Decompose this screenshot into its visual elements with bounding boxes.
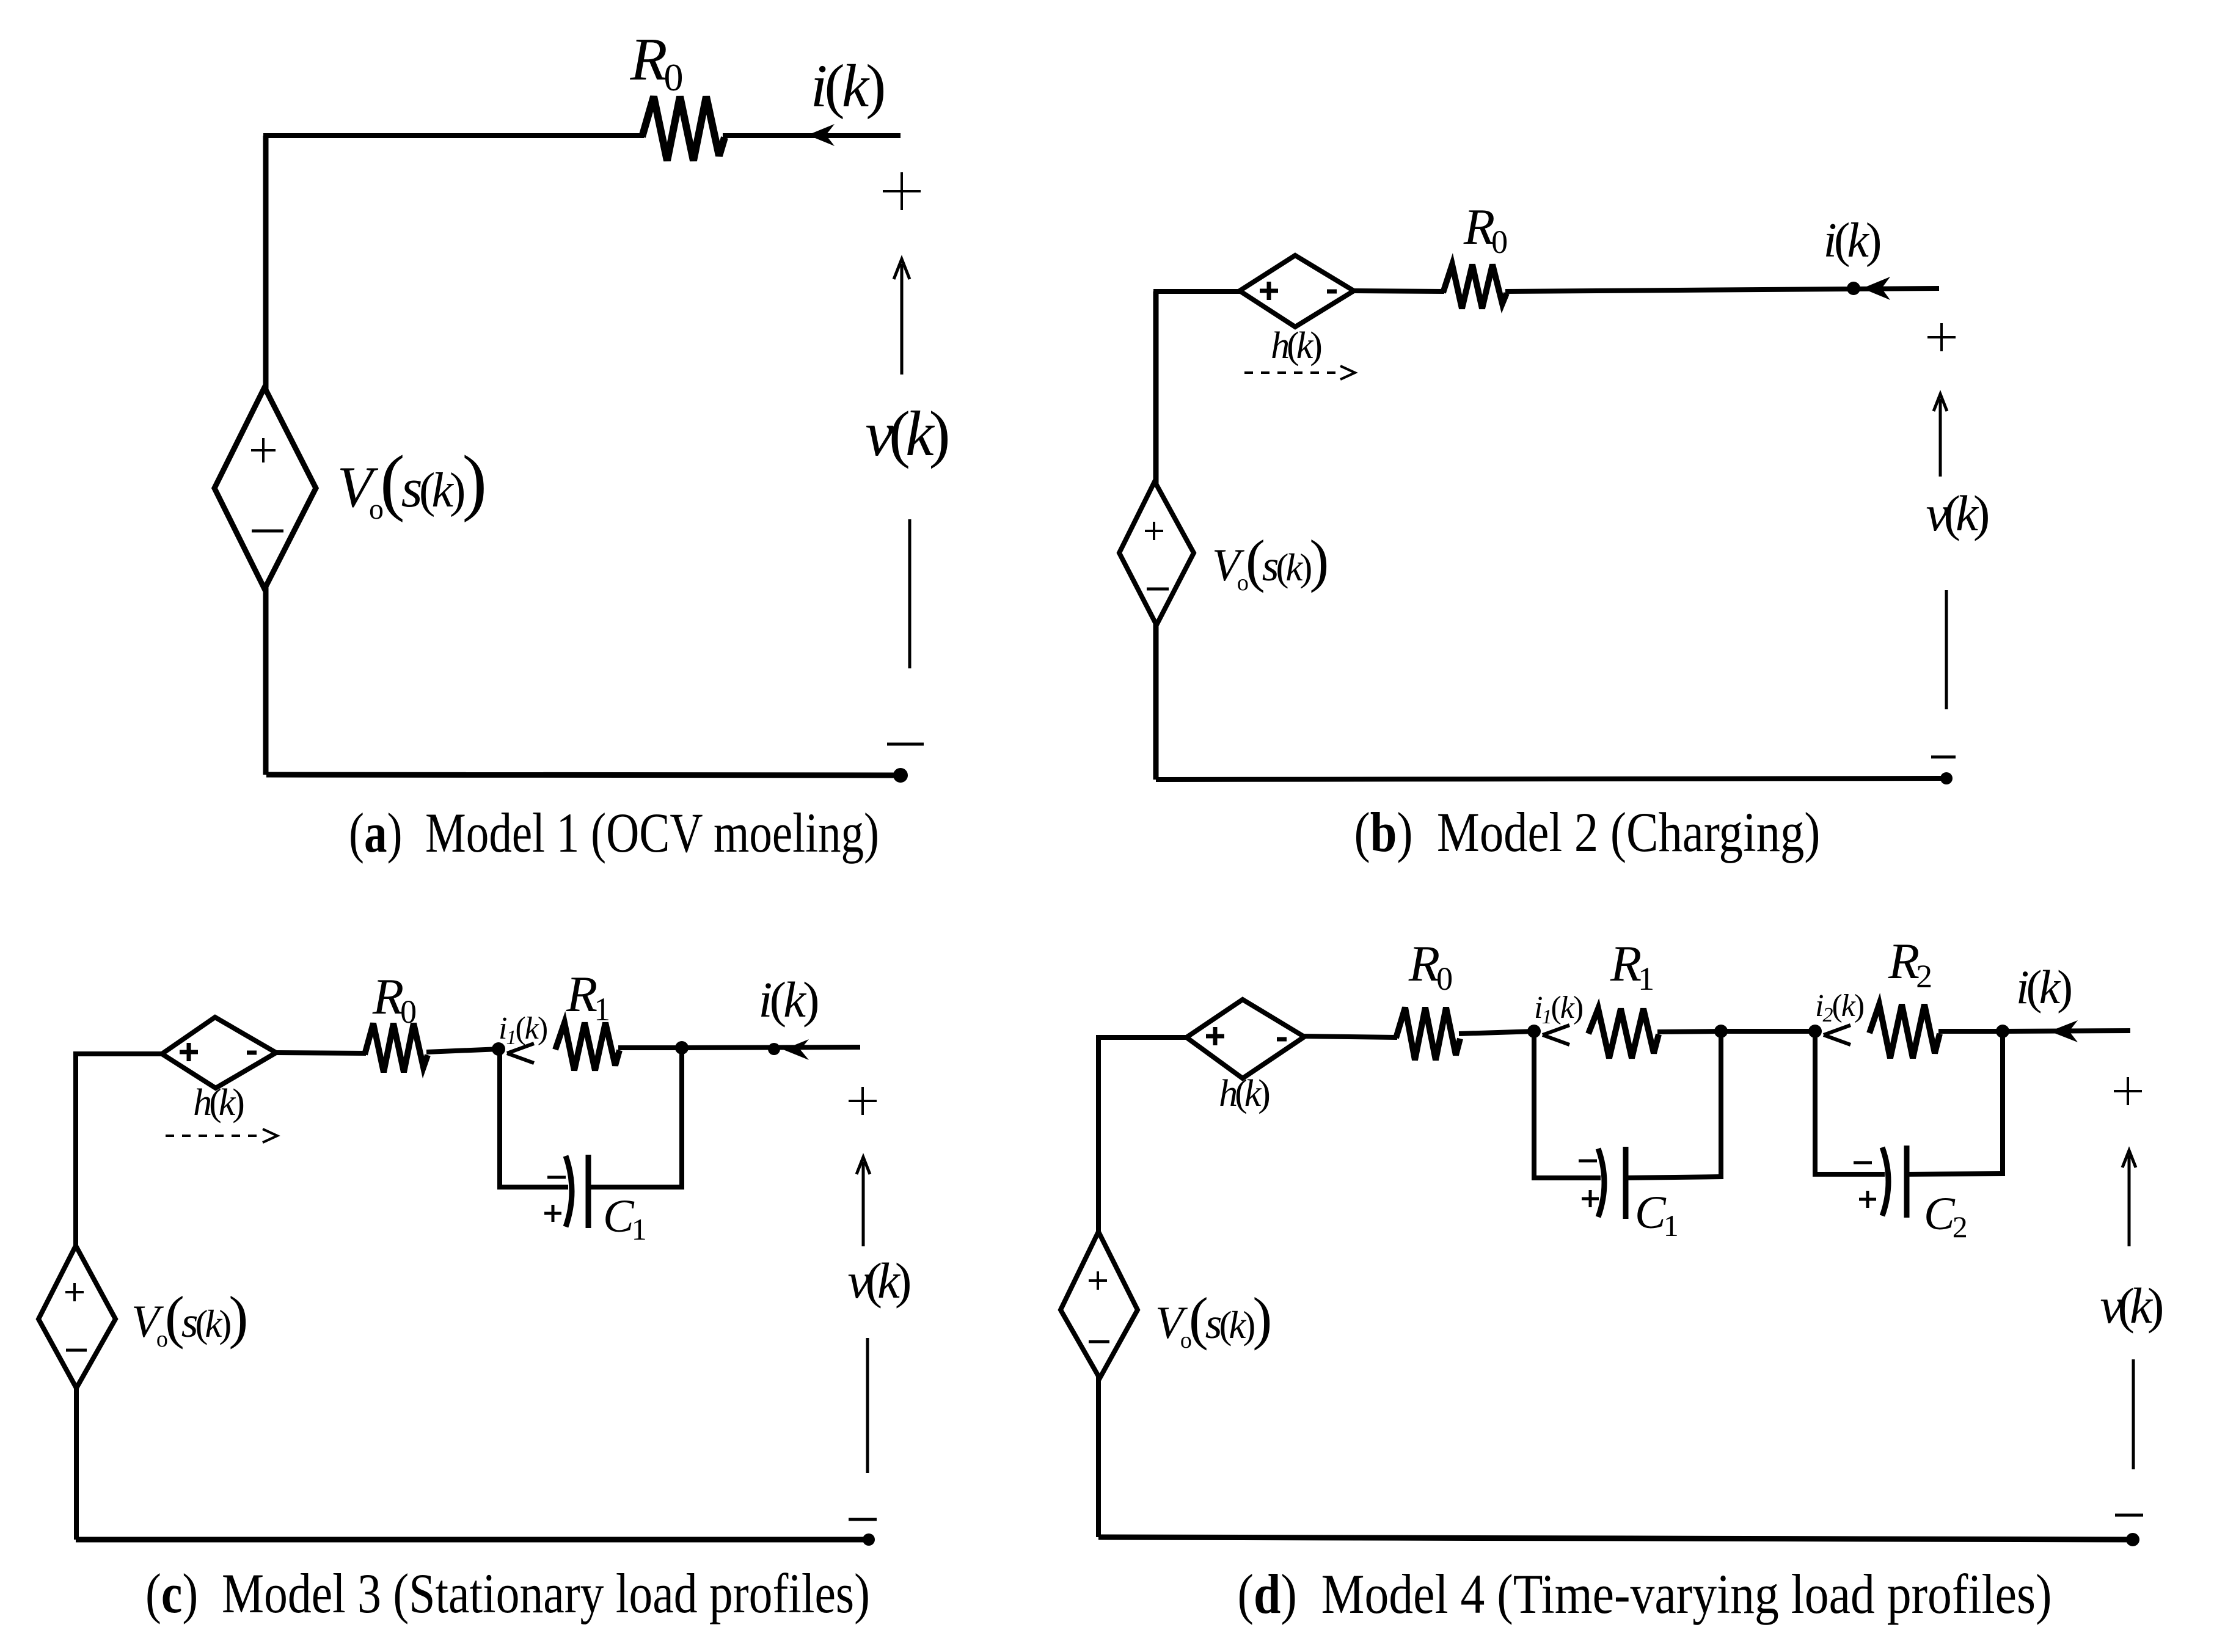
label v(k) (b) xyxy=(1926,485,1988,541)
node dot right of R2C2 (d) xyxy=(1996,1025,2009,1038)
label R0 (c) xyxy=(372,968,415,1030)
minus sign inside source (b) xyxy=(1147,588,1169,591)
capacitor branch C1 right vertical (d) xyxy=(1719,1031,1723,1179)
node dot at terminal (c) xyxy=(768,1043,780,1055)
plus sign capacitor C1 (d) xyxy=(1582,1190,1599,1207)
current arrow i(k) (c) xyxy=(783,1039,809,1060)
svg-text:(a) Model 1 (OCV moeling): (a) Model 1 (OCV moeling) xyxy=(349,802,879,864)
voltage source V_o diamond (c) xyxy=(38,1246,115,1388)
label R0 (d) xyxy=(1408,935,1452,997)
label i1(k) (c) xyxy=(499,1011,547,1049)
node dot right of R1C1 (d) xyxy=(1714,1025,1728,1038)
svg-text:h(k): h(k) xyxy=(193,1082,243,1124)
caption (d) xyxy=(1238,1563,2052,1625)
label C1 (d) xyxy=(1635,1187,1677,1243)
wire: circuit (d) top horizontal (node2 to node3) xyxy=(1721,1029,1816,1034)
label R1 (d) xyxy=(1610,935,1653,997)
node dot left of R2C2 (d) xyxy=(1808,1025,1822,1038)
label V_o(s(k)) (a) xyxy=(337,440,484,525)
resistor R2 (d) xyxy=(1869,1004,1940,1058)
label i(k) (a) xyxy=(811,52,884,120)
voltage source V_o diamond (b) xyxy=(1119,481,1194,625)
line v(k) lower segment (d) xyxy=(2132,1359,2135,1469)
capacitor branch C2 left vertical (d) xyxy=(1813,1031,1818,1177)
plus sign inside h source (d) xyxy=(1206,1027,1224,1045)
wire: circuit (a) bottom horizontal xyxy=(266,775,901,775)
label R0 (a) xyxy=(629,25,682,99)
wire: circuit (a) top horizontal (left of R0) xyxy=(263,133,644,138)
minus sign v(k) (b) xyxy=(1931,756,1956,759)
wire: circuit (a) left vertical (bottom section) xyxy=(263,587,269,775)
resistor R0 (d) xyxy=(1396,1007,1460,1060)
node dot left of RC pair (c) xyxy=(492,1042,505,1056)
wire: circuit (c) top horizontal (h source to R0) xyxy=(275,1053,366,1053)
label C1 (c) xyxy=(603,1191,645,1246)
arrow up v(k) (b) xyxy=(1934,394,1947,477)
node dot on top wire (b) xyxy=(1847,282,1860,295)
wire: circuit (b) top horizontal (right of R0) xyxy=(1505,288,1939,291)
wire: circuit (d) top horizontal (R0 to node1) xyxy=(1459,1031,1535,1034)
capacitor branch C2 bottom wire left (d) xyxy=(1813,1172,1885,1177)
arrow up v(k) (d) xyxy=(2122,1150,2136,1246)
svg-text:i(k): i(k) xyxy=(2016,960,2071,1014)
plus sign v(k) (d) xyxy=(2114,1077,2142,1105)
resistor R0 (b) xyxy=(1443,265,1507,309)
resistor R1 (c) xyxy=(555,1023,619,1070)
current arrow i2(k) (d) xyxy=(1824,1025,1850,1045)
minus sign inside source (c) xyxy=(66,1349,87,1352)
svg-text:(c) Model 3 (Stationary load: (c) Model 3 (Stationary load profiles) xyxy=(145,1562,870,1625)
resistor R0 (a) xyxy=(642,97,725,161)
plus sign v(k) (c) xyxy=(849,1087,877,1115)
wire: circuit (b) top horizontal (h source to R0) xyxy=(1353,291,1444,291)
node dot bottom right (b) xyxy=(1940,772,1953,784)
label i(k) (b) xyxy=(1823,214,1880,268)
plus sign inside source (b) xyxy=(1145,522,1163,540)
wire: circuit (d) top horizontal (left of h source) xyxy=(1096,1035,1188,1040)
line v(k) lower segment (b) xyxy=(1945,590,1948,709)
label V_o(s(k)) (c) xyxy=(131,1284,246,1352)
svg-text:(b) Model 2 (Charging): (b) Model 2 (Charging) xyxy=(1354,801,1821,863)
svg-text:h(k): h(k) xyxy=(1271,325,1321,367)
minus sign inside h source (d) xyxy=(1277,1037,1287,1042)
wire: circuit (c) top horizontal (R0 to node) xyxy=(426,1049,500,1052)
hysteresis source h(k) diamond (b) xyxy=(1240,255,1354,327)
current arrow i(k) (b) xyxy=(1862,277,1890,300)
capacitor C2 plates (d) xyxy=(1882,1146,1907,1218)
node dot right of RC pair (c) xyxy=(675,1041,689,1054)
resistor R1 (d) xyxy=(1588,1009,1659,1058)
dashed arrow h(k) (c) xyxy=(166,1129,277,1142)
line v(k) lower segment (c) xyxy=(866,1338,869,1473)
svg-text:(d) Model 4 (Time-varying loa: (d) Model 4 (Time-varying load profiles) xyxy=(1238,1563,2052,1625)
minus sign inside source (a) xyxy=(252,530,283,533)
current arrow i1(k) (d) xyxy=(1543,1025,1569,1045)
wire: circuit (d) top horizontal (h source to R0) xyxy=(1303,1036,1397,1037)
label h(k) (b) xyxy=(1271,325,1321,367)
caption (c) xyxy=(145,1562,870,1625)
svg-text:i(k): i(k) xyxy=(811,52,884,120)
plus sign capacitor C1 (c) xyxy=(544,1205,561,1222)
wire: circuit (c) top horizontal (R1 to node) xyxy=(618,1045,683,1050)
wire: circuit (b) bottom horizontal xyxy=(1156,778,1946,780)
capacitor branch C1 bottom wire left (d) xyxy=(1532,1175,1601,1180)
label h(k) (c) xyxy=(193,1082,243,1124)
arrow up v(k) (c) xyxy=(857,1157,870,1246)
resistor R0 (c) xyxy=(365,1023,428,1072)
wire: circuit (d) left vertical (top section) xyxy=(1096,1037,1101,1234)
capacitor C1 plates (c) xyxy=(566,1155,588,1228)
capacitor C1 plates (d) xyxy=(1598,1147,1626,1219)
capacitor branch C2 right vertical (d) xyxy=(2000,1031,2005,1176)
plus sign inside source (a) xyxy=(251,438,276,462)
caption (b) xyxy=(1354,801,1821,863)
plus sign inside h source (b) xyxy=(1260,282,1278,300)
capacitor branch right vertical (c) xyxy=(679,1048,684,1190)
svg-text:i1(k): i1(k) xyxy=(499,1011,547,1049)
wire: circuit (b) left vertical (bottom section) xyxy=(1153,623,1159,780)
svg-text:i(k): i(k) xyxy=(1823,214,1880,268)
dashed arrow h(k) (b) xyxy=(1244,366,1355,379)
svg-text:h(k): h(k) xyxy=(1219,1073,1269,1114)
wire: circuit (d) top horizontal (R2 to node4) xyxy=(1938,1029,2004,1034)
node dot bottom right (a) xyxy=(893,768,908,783)
wire: circuit (c) bottom horizontal xyxy=(76,1537,869,1543)
minus sign capacitor C1 (c) xyxy=(547,1176,566,1179)
current arrow i1(k) (c) xyxy=(507,1043,534,1063)
capacitor branch C1 bottom wire right (d) xyxy=(1626,1177,1723,1178)
wire: circuit (c) left vertical (bottom section) xyxy=(74,1386,79,1540)
svg-text:v(k): v(k) xyxy=(865,398,948,469)
wire: circuit (a) left vertical (top section) xyxy=(263,136,269,390)
minus sign v(k) (a) xyxy=(887,743,924,746)
svg-text:i1(k): i1(k) xyxy=(1534,990,1583,1028)
minus sign v(k) (c) xyxy=(849,1518,877,1521)
svg-text:i2(k): i2(k) xyxy=(1815,989,1864,1026)
wire: circuit (c) top horizontal (left of h source) xyxy=(73,1051,163,1056)
label R2 (d) xyxy=(1888,933,1931,995)
minus sign inside h source (c) xyxy=(247,1051,257,1055)
voltage source V_o diamond (a) xyxy=(214,387,316,589)
capacitor branch C2 bottom wire right (d) xyxy=(1907,1174,2005,1174)
label V_o(s(k)) (b) xyxy=(1212,528,1326,596)
plus sign v(k) (a) xyxy=(883,172,921,210)
label v(k) (c) xyxy=(848,1252,910,1309)
label i(k) (c) xyxy=(758,971,817,1028)
node dot bottom right (d) xyxy=(2126,1533,2139,1546)
minus sign inside source (d) xyxy=(1089,1340,1109,1343)
svg-text:v(k): v(k) xyxy=(848,1252,910,1309)
label v(k) (a) xyxy=(865,398,948,469)
minus sign inside h source (b) xyxy=(1327,290,1337,294)
wire: circuit (c) top horizontal (node to terminal) xyxy=(682,1047,860,1048)
node dot bottom right (c) xyxy=(863,1533,875,1546)
wire: circuit (c) left vertical (top section) xyxy=(73,1054,78,1248)
minus sign v(k) (d) xyxy=(2115,1514,2143,1517)
caption (a) xyxy=(349,802,879,864)
label h(k) (d) xyxy=(1219,1073,1269,1114)
label V_o(s(k)) (d) xyxy=(1155,1285,1270,1353)
plus sign inside source (d) xyxy=(1089,1271,1107,1290)
label v(k) (d) xyxy=(2100,1277,2162,1334)
label C2 (d) xyxy=(1924,1188,1967,1244)
capacitor branch left vertical (c) xyxy=(497,1049,502,1190)
wire: circuit (d) top horizontal (node4 to terminal) xyxy=(2003,1031,2130,1031)
wire: circuit (b) top horizontal (left of h source) xyxy=(1153,289,1241,294)
hysteresis source h(k) diamond (d) xyxy=(1186,1000,1304,1078)
plus sign v(k) (b) xyxy=(1927,323,1956,351)
svg-text:v(k): v(k) xyxy=(1926,485,1988,541)
svg-text:v(k): v(k) xyxy=(2100,1277,2162,1334)
capacitor branch bottom wire left (c) xyxy=(497,1185,568,1190)
svg-text:i(k): i(k) xyxy=(758,971,817,1028)
hysteresis source h(k) diamond (c) xyxy=(162,1017,276,1088)
label i2(k) (d) xyxy=(1815,989,1864,1026)
label R1 (c) xyxy=(566,966,608,1028)
minus sign capacitor C1 (d) xyxy=(1579,1160,1597,1163)
arrow up v(k) (a) xyxy=(894,259,910,375)
capacitor branch bottom wire right (c) xyxy=(588,1185,684,1190)
node dot left of R1C1 (d) xyxy=(1527,1025,1541,1038)
minus sign capacitor C2 (d) xyxy=(1854,1161,1872,1164)
line v(k) lower segment (a) xyxy=(908,519,912,668)
wire: circuit (d) top horizontal (R1 to node2) xyxy=(1657,1031,1722,1032)
label i(k) (d) xyxy=(2016,960,2071,1014)
wire: circuit (d) left vertical (bottom section) xyxy=(1096,1376,1101,1537)
plus sign inside h source (c) xyxy=(180,1043,198,1061)
wire: circuit (b) left vertical (top section) xyxy=(1153,291,1159,484)
current arrow i(k) (d) xyxy=(2050,1020,2078,1042)
plus sign inside source (c) xyxy=(65,1283,84,1301)
plus sign capacitor C2 (d) xyxy=(1859,1191,1876,1208)
label R0 (b) xyxy=(1463,199,1507,260)
wire: circuit (a) top horizontal (right of R0) xyxy=(723,133,901,138)
current arrow i(k) (a) xyxy=(808,124,835,146)
capacitor branch C1 left vertical (d) xyxy=(1532,1031,1536,1180)
voltage source V_o diamond (d) xyxy=(1061,1232,1138,1378)
label i1(k) (d) xyxy=(1534,990,1583,1028)
wire: circuit (d) bottom horizontal xyxy=(1098,1537,2133,1540)
